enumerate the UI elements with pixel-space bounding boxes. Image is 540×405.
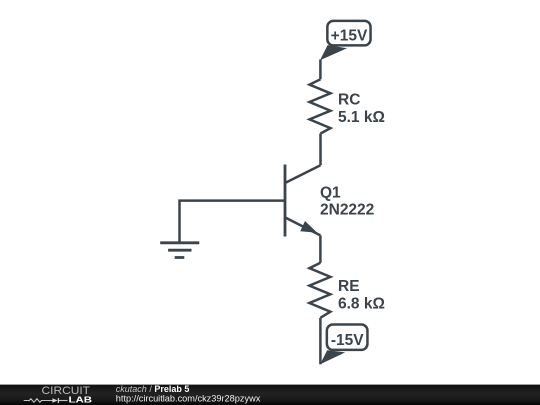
wire (319, 60, 322, 80)
wire (319, 134, 322, 166)
svg-text:LAB: LAB (69, 396, 93, 405)
svg-text:RC: RC (338, 91, 360, 108)
resistor RC (310, 79, 385, 133)
svg-text:RE: RE (338, 278, 360, 295)
svg-text:-15V: -15V (331, 332, 364, 349)
svg-text:6.8 kΩ: 6.8 kΩ (338, 295, 385, 312)
svg-text:5.1 kΩ: 5.1 kΩ (338, 109, 385, 126)
CircuitLab logo (24, 385, 92, 404)
power +15V (320, 21, 371, 60)
wire (319, 318, 322, 365)
svg-text:Q1: Q1 (320, 185, 341, 202)
resistor RE (309, 263, 385, 318)
wire emitter (319, 235, 322, 262)
wire base (180, 201, 286, 242)
ground (160, 243, 199, 258)
svg-text:+15V: +15V (331, 28, 368, 45)
footer text (116, 384, 261, 403)
svg-text:http://circuitlab.com/ckz39r28: http://circuitlab.com/ckz39r28pzywx (116, 393, 261, 403)
transistor Q1 (285, 165, 374, 237)
power -15V (320, 325, 367, 365)
footer bar (0, 385, 540, 405)
svg-text:2N2222: 2N2222 (320, 202, 374, 219)
